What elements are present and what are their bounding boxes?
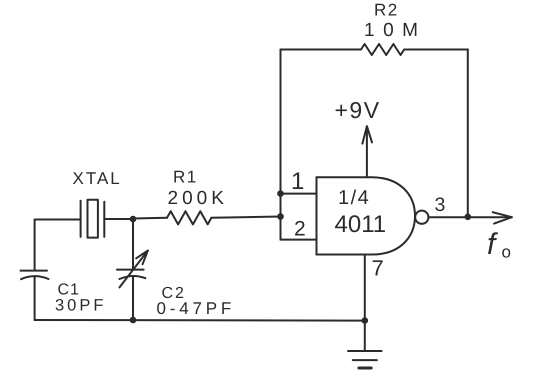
svg-text:0-47PF: 0-47PF <box>157 299 236 318</box>
svg-text:2: 2 <box>294 218 306 241</box>
junction R1 node <box>277 213 284 220</box>
junction bottom/pin7 <box>362 317 369 324</box>
resistor R1 <box>167 211 211 224</box>
svg-text:30PF: 30PF <box>55 297 106 315</box>
wire R1 to gate input node <box>211 217 280 218</box>
svg-text:f: f <box>487 228 498 261</box>
wire xtal left lead <box>35 219 81 221</box>
node f0 output label <box>487 228 511 262</box>
wire bottom horizontal <box>35 319 365 322</box>
wire xtal right lead <box>104 218 133 220</box>
wire C2 top lead <box>132 219 134 269</box>
wire C2 bottom lead <box>132 276 134 320</box>
svg-text:+9V: +9V <box>335 97 381 123</box>
svg-text:R1: R1 <box>173 168 198 187</box>
svg-text:1: 1 <box>291 168 304 195</box>
junction node A (xtal / R1 / C2) <box>130 216 137 223</box>
wire node A to R1 <box>133 217 167 220</box>
junction output/feedback <box>465 214 472 221</box>
wire left vertical lower (C1 to bottom) <box>34 276 36 320</box>
wire top feedback horizontal left <box>281 49 362 51</box>
wire top feedback right vertical <box>467 50 469 217</box>
wire to pin 1 <box>281 193 317 195</box>
wire output pin 3 <box>428 216 511 218</box>
svg-text:1/4: 1/4 <box>338 187 370 209</box>
svg-text:4011: 4011 <box>335 211 387 238</box>
wire to pin 2 <box>281 239 317 241</box>
junction C2/bottom wire <box>130 317 137 324</box>
junction pin1 node <box>277 190 284 197</box>
capacitor C1 <box>21 271 49 280</box>
svg-text:o: o <box>502 243 511 262</box>
op-amp U1 NAND gate 1/4 4011 <box>317 177 429 254</box>
svg-text:R2: R2 <box>374 1 399 20</box>
wire pin 7 vertical <box>364 255 366 352</box>
svg-text:200K: 200K <box>168 188 228 209</box>
wire left vertical upper (to C1) <box>34 220 36 271</box>
power +9V wire <box>366 127 368 177</box>
power +9V arrowhead <box>362 126 372 143</box>
ground <box>348 351 382 368</box>
svg-text:10M: 10M <box>364 20 426 41</box>
wire top feedback horizontal right <box>404 49 468 51</box>
wire top feedback left vertical <box>280 50 282 240</box>
svg-text:3: 3 <box>435 194 446 216</box>
svg-text:7: 7 <box>372 256 384 281</box>
crystal XTAL <box>81 200 105 238</box>
svg-text:XTAL: XTAL <box>73 169 122 188</box>
output arrowhead <box>493 212 512 223</box>
capacitor C2 (variable) <box>117 251 148 288</box>
resistor R2 <box>361 44 404 55</box>
